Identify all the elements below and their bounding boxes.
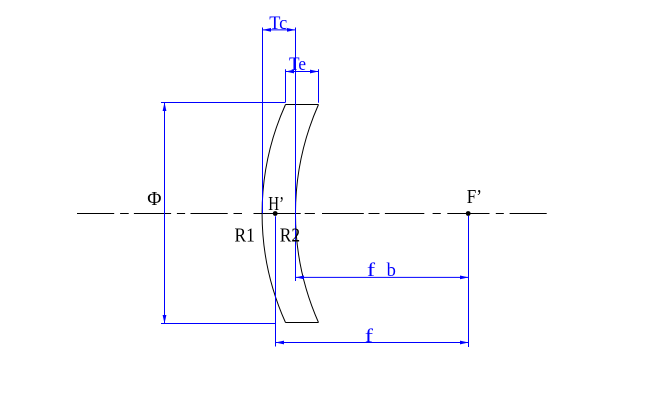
svg-text:b: b [387,261,396,281]
svg-text:R2: R2 [280,224,300,246]
dimension Te: left arrow [286,70,295,74]
dimension Tc: right arrow [287,28,296,32]
principal point H' dot [273,211,278,216]
lens bottom edge [286,322,319,324]
dimension Phi: bottom arrow [163,315,167,324]
dimension Phi: vertical dimension line [164,103,166,324]
dimension Tc: left arrow [263,28,272,32]
dimension Tc: left extension line [262,28,264,214]
lens top edge [286,104,319,106]
dimension Te: right extension line [318,69,320,102]
dimension Phi: top arrow [163,103,167,112]
dimension Tc: dimension line [263,29,296,31]
svg-text:R1: R1 [235,224,255,246]
svg-text:Tc: Tc [269,14,287,34]
dimension Te: right arrow [310,70,319,74]
svg-text:H’: H’ [268,193,284,215]
svg-text:F’: F’ [467,186,482,208]
dimension f and f_b: right extension line (from F') [468,216,470,347]
svg-text:Φ: Φ [147,188,161,210]
dimension f: dimension line [276,342,469,344]
svg-text:f: f [365,327,374,347]
focal point F' dot [466,211,471,216]
lens right surface R2 arc [295,105,318,323]
dimension f_b: right arrow [460,276,469,280]
dimension Phi: top extension line [161,102,286,104]
dimension f: right arrow [460,341,469,345]
dimension f: left arrow [276,341,285,345]
lens left surface R1 arc [262,105,285,323]
dimension Phi: bottom extension line [161,323,276,325]
dimension Tc: right extension line (also f_b left extension) [295,28,297,282]
dimension f_b: left arrow [296,276,305,280]
svg-text:Te: Te [289,55,306,75]
dimension f: left extension line (from H') [275,216,277,346]
dimension Te: left extension line [285,69,287,102]
dimension f_b: dimension line [296,276,469,278]
optical axis centerline [77,213,547,215]
dimension Te: dimension line [286,71,319,73]
svg-text:f: f [367,261,376,281]
